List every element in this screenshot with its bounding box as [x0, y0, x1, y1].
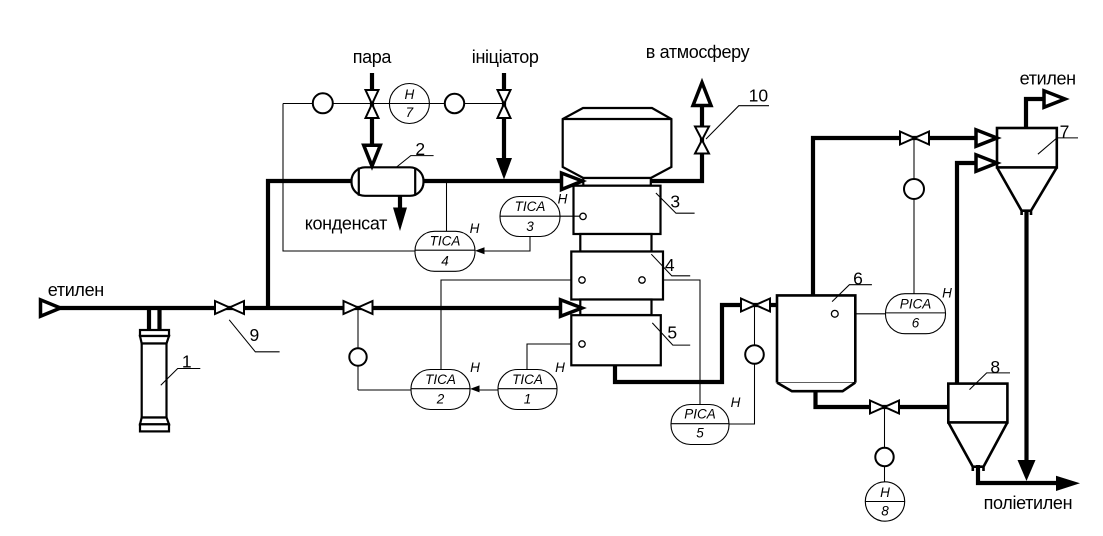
svg-text:2: 2 — [415, 139, 425, 159]
svg-text:в атмосферу: в атмосферу — [646, 42, 750, 62]
svg-text:TICA: TICA — [512, 372, 543, 387]
svg-text:H: H — [555, 360, 565, 375]
svg-text:H: H — [470, 360, 480, 375]
svg-text:H: H — [405, 87, 415, 102]
svg-text:пара: пара — [353, 47, 393, 67]
svg-text:2: 2 — [436, 391, 445, 406]
svg-text:ініціатор: ініціатор — [472, 47, 539, 67]
svg-text:3: 3 — [526, 219, 534, 234]
svg-text:3: 3 — [670, 192, 680, 212]
svg-text:PICA: PICA — [684, 406, 716, 421]
svg-text:5: 5 — [667, 322, 677, 342]
svg-text:7: 7 — [1060, 121, 1070, 141]
svg-text:6: 6 — [912, 315, 920, 330]
svg-text:1: 1 — [182, 352, 192, 372]
svg-text:етилен: етилен — [48, 280, 104, 300]
svg-text:6: 6 — [853, 269, 863, 289]
svg-text:PICA: PICA — [900, 296, 932, 311]
svg-text:7: 7 — [406, 105, 414, 120]
svg-text:1: 1 — [524, 391, 532, 406]
svg-text:H: H — [470, 221, 480, 236]
svg-text:10: 10 — [749, 85, 769, 105]
svg-text:5: 5 — [696, 425, 704, 440]
svg-text:конденсат: конденсат — [305, 214, 387, 234]
svg-text:H: H — [731, 395, 741, 410]
svg-text:H: H — [558, 191, 568, 206]
svg-text:поліетилен: поліетилен — [984, 493, 1073, 513]
svg-text:8: 8 — [990, 357, 1000, 377]
svg-text:TICA: TICA — [425, 372, 456, 387]
svg-text:TICA: TICA — [430, 234, 461, 249]
svg-text:етилен: етилен — [1020, 69, 1076, 89]
svg-text:TICA: TICA — [515, 199, 546, 214]
svg-text:8: 8 — [881, 504, 889, 519]
svg-text:H: H — [942, 286, 952, 301]
svg-text:H: H — [880, 485, 890, 500]
svg-text:4: 4 — [441, 254, 449, 269]
svg-text:4: 4 — [665, 255, 675, 275]
svg-text:9: 9 — [250, 325, 260, 345]
